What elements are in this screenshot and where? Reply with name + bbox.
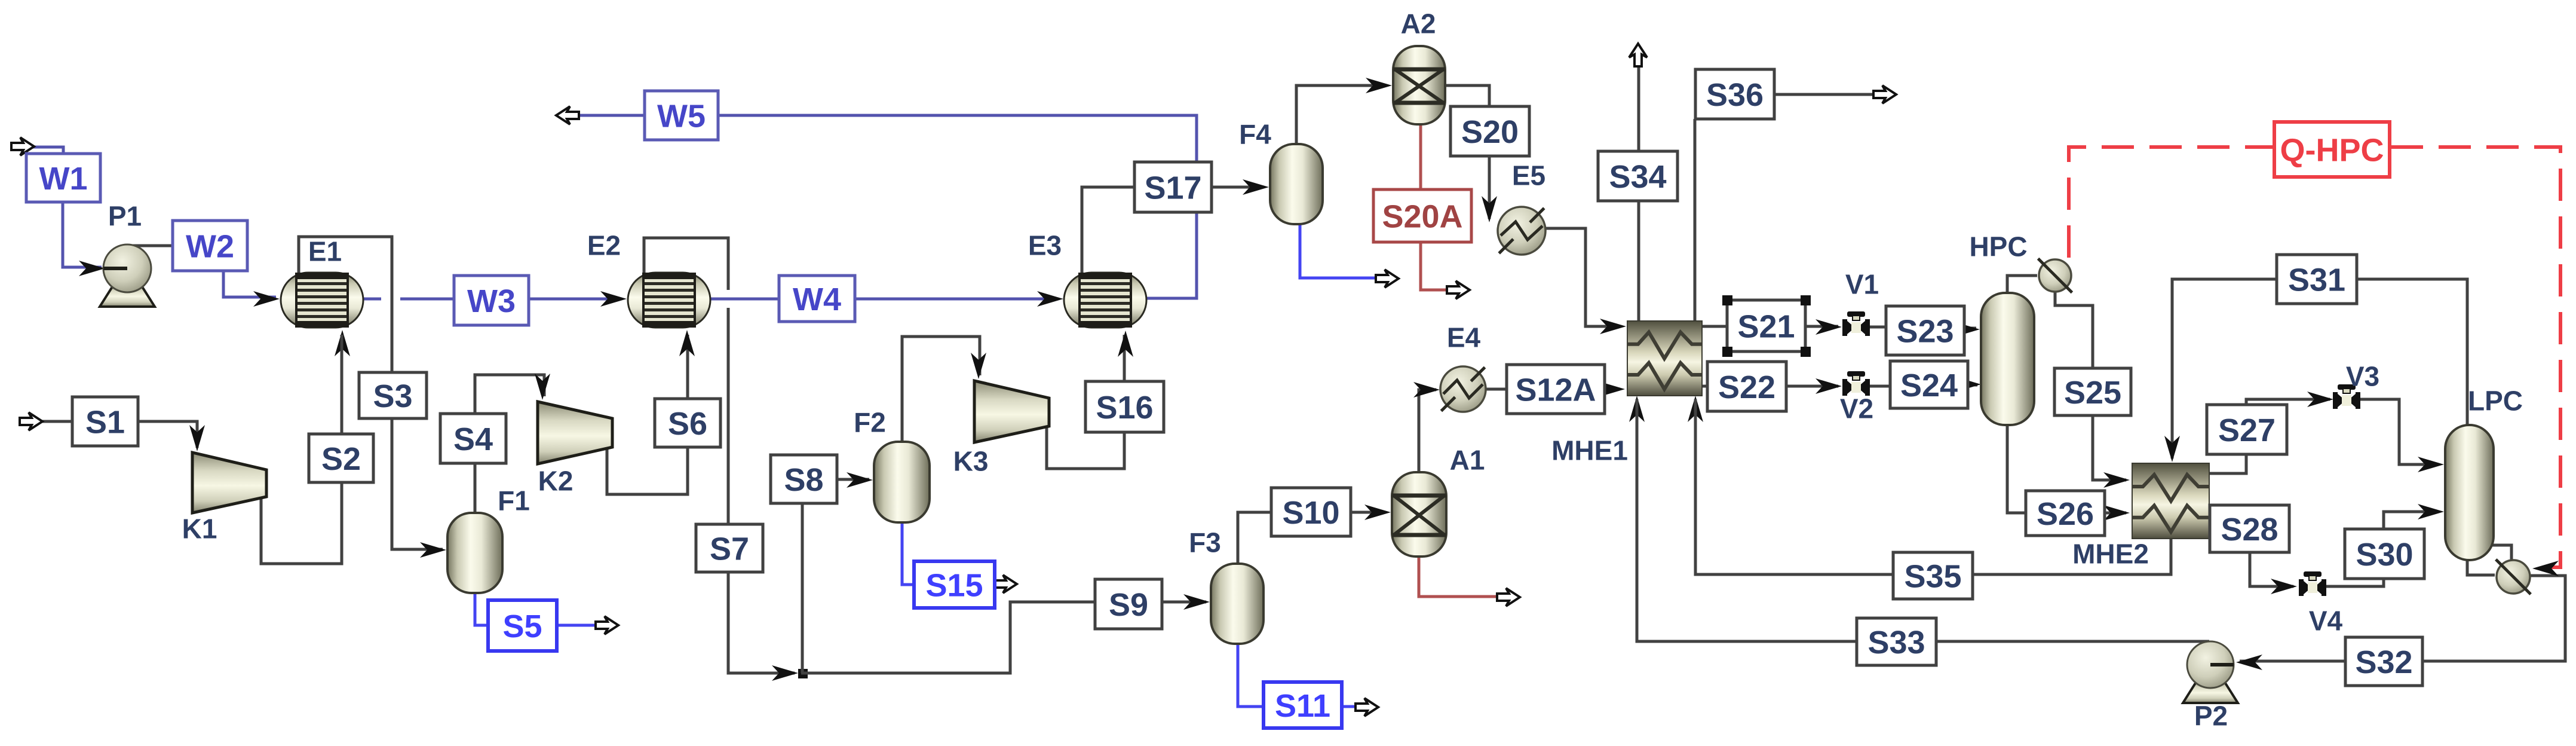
io arrow S20A outlet bbox=[1447, 281, 1470, 299]
arrowhead into LPC lower bbox=[2418, 504, 2444, 519]
svg-text:S16: S16 bbox=[1096, 390, 1153, 426]
flash drum F1 bbox=[447, 513, 502, 593]
arrowhead into MHE2 hot2 bbox=[2103, 505, 2130, 521]
svg-text:A1: A1 bbox=[1450, 445, 1485, 476]
wire V2 to S24 bbox=[1870, 385, 1891, 388]
svg-text:V3: V3 bbox=[2346, 361, 2379, 392]
wire F2 top to K3 bbox=[902, 337, 980, 442]
wire S25 to MHE2 inlet bbox=[2093, 415, 2126, 480]
stream label S34 bbox=[1598, 151, 1678, 201]
pump P2 bbox=[2183, 641, 2238, 703]
stream label S30 bbox=[2345, 529, 2424, 579]
arrowhead into E1 bottom bbox=[335, 330, 350, 356]
svg-text:E1: E1 bbox=[308, 236, 342, 267]
stream label S6 bbox=[655, 399, 720, 447]
svg-text:V4: V4 bbox=[2309, 606, 2343, 637]
svg-text:F4: F4 bbox=[1239, 119, 1271, 150]
wire S35 from MHE2 to MHE1 bbox=[1695, 399, 2171, 574]
stream label S33 bbox=[1857, 618, 1936, 665]
svg-text:S36: S36 bbox=[1706, 77, 1764, 113]
wire MHE2 via S27 to V3 bbox=[2209, 399, 2330, 473]
stream label S27 bbox=[2207, 405, 2287, 454]
arrowhead into V4 bbox=[2271, 579, 2297, 594]
svg-text:E4: E4 bbox=[1447, 322, 1481, 353]
wire V3 to LPC bbox=[2357, 399, 2439, 464]
svg-text:S27: S27 bbox=[2218, 412, 2276, 448]
wire S8 down to junction bbox=[801, 503, 804, 673]
svg-text:S24: S24 bbox=[1900, 368, 1958, 403]
flash drum F3 bbox=[1211, 564, 1264, 644]
stream label S21 bbox=[1727, 300, 1805, 351]
stream label S7 bbox=[696, 524, 763, 572]
arrowhead into V3 bbox=[2307, 392, 2333, 407]
svg-text:S34: S34 bbox=[1609, 159, 1666, 195]
arrowhead at junction bbox=[772, 665, 798, 681]
wire E5 to MHE1 bbox=[1544, 228, 1621, 326]
multistream exchanger MHE2 bbox=[2132, 463, 2209, 539]
wire A2 bottom via S20A bbox=[1421, 126, 1448, 290]
io arrow S36 outlet bbox=[1873, 85, 1896, 103]
svg-text:S4: S4 bbox=[453, 421, 493, 457]
wire V4 via S30 to LPC bbox=[2326, 512, 2439, 586]
stream label S4 bbox=[440, 414, 506, 463]
wire S36 to outlet bbox=[1773, 93, 1875, 96]
wire E2 to W4 bbox=[710, 298, 780, 301]
io arrow W1 feed bbox=[11, 137, 34, 155]
valve V4 bbox=[2299, 571, 2326, 596]
wire E3 to W5 bbox=[719, 115, 1197, 298]
svg-text:K2: K2 bbox=[538, 466, 574, 497]
svg-text:S12A: S12A bbox=[1515, 372, 1596, 408]
svg-text:S33: S33 bbox=[1867, 625, 1925, 661]
wire A1 top to E4 bbox=[1419, 390, 1436, 472]
heater E5 bbox=[1498, 207, 1545, 255]
column HPC body bbox=[1981, 293, 2034, 425]
flash drum F4 bbox=[1270, 144, 1323, 224]
wire S7 down to junction bbox=[728, 308, 795, 673]
wire K1 to S2 bbox=[261, 359, 342, 564]
arrowhead into LPC reboiler bbox=[2532, 561, 2559, 576]
svg-text:S30: S30 bbox=[2356, 537, 2413, 573]
valve V2 bbox=[1842, 371, 1870, 396]
svg-text:S31: S31 bbox=[2288, 262, 2345, 298]
svg-text:A2: A2 bbox=[1401, 8, 1436, 39]
wire S22 to V2 bbox=[1785, 385, 1838, 388]
arrowhead into E1 bbox=[253, 291, 280, 307]
stream label S20A bbox=[1373, 189, 1471, 242]
svg-text:S2: S2 bbox=[321, 441, 361, 477]
wire S23 to HPC bbox=[1963, 327, 1976, 330]
arrowhead into F2 bbox=[847, 472, 873, 488]
wire junction via S9 to F3 bbox=[801, 602, 1206, 673]
stream label S36 bbox=[1695, 69, 1774, 119]
io arrow S5 outlet bbox=[596, 616, 618, 634]
stream label S9 bbox=[1095, 579, 1162, 629]
wire S26 to MHE2 bbox=[2103, 512, 2126, 515]
svg-text:S17: S17 bbox=[1144, 170, 1201, 206]
wire F1 bottom to S5 bbox=[475, 593, 489, 625]
stream label S10 bbox=[1271, 488, 1351, 536]
wire Q-HPC dashed left bbox=[2069, 147, 2273, 258]
heat exchanger E1 bbox=[281, 273, 363, 328]
compressor K3 bbox=[974, 381, 1049, 442]
arrowhead into MHE1 cold1 bbox=[1629, 396, 1645, 422]
wire S11 stub bbox=[1341, 705, 1357, 708]
compressor K2 bbox=[538, 402, 612, 464]
stream label S26 bbox=[2026, 491, 2105, 536]
wire S2 up bbox=[341, 359, 344, 482]
wire W5 to outlet bbox=[577, 114, 646, 117]
wire F3 top via S10 to A1 bbox=[1238, 512, 1386, 564]
svg-text:S8: S8 bbox=[784, 462, 823, 498]
wire HPC bottom to S26 bbox=[2007, 425, 2027, 513]
stream label S17 bbox=[1134, 162, 1212, 212]
stream label W5 bbox=[645, 91, 718, 140]
wire reboiler via S32 bbox=[2424, 576, 2565, 661]
io arrow S34 outlet bbox=[1629, 44, 1647, 66]
svg-text:S25: S25 bbox=[2064, 375, 2121, 411]
svg-text:HPC: HPC bbox=[1969, 231, 2027, 262]
arrowhead into P1 bbox=[79, 261, 105, 276]
wire LPC top via S31 to MHE2 bbox=[2172, 279, 2467, 458]
svg-text:E3: E3 bbox=[1028, 230, 1062, 261]
arrowhead into F3 bbox=[1183, 594, 1210, 610]
flash drum F2 bbox=[874, 442, 930, 522]
svg-text:K1: K1 bbox=[182, 513, 217, 545]
svg-text:P1: P1 bbox=[108, 201, 142, 232]
arrowhead into K2 bbox=[535, 374, 550, 400]
svg-text:W3: W3 bbox=[467, 283, 516, 319]
wire S1 to K1 bbox=[137, 421, 197, 448]
arrowhead into A2 bbox=[1366, 78, 1392, 93]
svg-text:S3: S3 bbox=[373, 378, 412, 414]
svg-text:S32: S32 bbox=[2355, 644, 2412, 680]
arrowhead into K3 bbox=[971, 353, 986, 379]
junction node bbox=[798, 669, 808, 678]
wire HPC top to condenser bbox=[2007, 276, 2037, 293]
svg-text:S1: S1 bbox=[85, 404, 125, 440]
stream label S25 bbox=[2054, 368, 2131, 415]
stream label S28 bbox=[2210, 505, 2289, 552]
arrowhead into F1 bbox=[420, 542, 446, 558]
arrowhead into MHE1 cold2 bbox=[1688, 396, 1703, 422]
io arrow A1 bottom outlet bbox=[1497, 588, 1520, 606]
svg-text:MHE2: MHE2 bbox=[2072, 539, 2149, 570]
svg-text:V1: V1 bbox=[1845, 269, 1879, 300]
io arrow S1 feed bbox=[20, 412, 42, 430]
wire F2 bottom to S15 bbox=[902, 522, 915, 585]
arrowhead into MHE1 hot2 bbox=[1599, 381, 1625, 397]
arrowhead into MHE2 top bbox=[2164, 436, 2180, 462]
wire E2 top to S7 upper bbox=[644, 238, 728, 290]
arrowhead into HPC upper bbox=[1954, 322, 1980, 337]
stream label S22 bbox=[1707, 362, 1786, 411]
io arrow W5 outlet bbox=[556, 106, 579, 124]
arrowhead into V1 bbox=[1816, 319, 1842, 335]
stream label W1 bbox=[26, 154, 100, 202]
svg-text:MHE1: MHE1 bbox=[1551, 435, 1628, 466]
stream label S16 bbox=[1085, 381, 1164, 432]
arrowhead into A1 bbox=[1364, 505, 1391, 520]
wire F1 top via S4 to K2 bbox=[475, 375, 544, 513]
svg-text:Q-HPC: Q-HPC bbox=[2280, 132, 2384, 168]
stream label S3 bbox=[359, 372, 427, 418]
io arrow F4 liquid outlet bbox=[1376, 270, 1399, 288]
multistream exchanger MHE1 bbox=[1627, 321, 1702, 396]
arrowhead into MHE1 hot1 bbox=[1600, 319, 1626, 334]
column LPC body bbox=[2445, 425, 2494, 560]
svg-text:W1: W1 bbox=[39, 161, 88, 197]
wire K3 via S16 to E3 bbox=[1047, 335, 1124, 469]
arrowhead into E5 bbox=[1482, 196, 1497, 222]
svg-text:LPC: LPC bbox=[2468, 386, 2523, 417]
stream label S23 bbox=[1886, 306, 1964, 355]
wire S24 to HPC bbox=[1967, 384, 1977, 387]
svg-text:W2: W2 bbox=[186, 228, 234, 264]
svg-text:F2: F2 bbox=[854, 407, 886, 438]
svg-text:W5: W5 bbox=[657, 98, 706, 134]
wire A1 bottom red outlet bbox=[1419, 557, 1498, 597]
wire F4 top to A2 bbox=[1296, 85, 1387, 144]
heat exchanger E3 bbox=[1064, 273, 1146, 328]
arrowhead into E3 bottom bbox=[1118, 331, 1133, 357]
wire V1 to S23 bbox=[1870, 326, 1887, 329]
arrowhead into K1 bbox=[189, 425, 205, 451]
svg-text:S15: S15 bbox=[925, 567, 983, 603]
svg-text:S26: S26 bbox=[2037, 496, 2094, 532]
wire S33 from P2 to MHE1 bbox=[1637, 399, 2209, 641]
arrowhead into P2 bbox=[2236, 655, 2262, 670]
wire MHE1 top to S34 outlet bbox=[1637, 66, 1640, 321]
arrowhead into E4 bbox=[1413, 382, 1440, 398]
arrowhead into LPC upper bbox=[2418, 457, 2444, 472]
svg-text:S35: S35 bbox=[1904, 558, 1961, 594]
stream label S5 bbox=[488, 600, 557, 651]
wire S2 to E1 bbox=[341, 335, 344, 434]
arrowhead into E2 bottom bbox=[679, 330, 695, 356]
io arrow S11 outlet bbox=[1356, 698, 1378, 716]
reboiler of LPC bbox=[2496, 559, 2531, 594]
svg-text:S28: S28 bbox=[2221, 512, 2278, 548]
wire E3 top via S17 to F4 bbox=[1082, 187, 1264, 273]
stream label S8 bbox=[771, 455, 837, 503]
pump P1 bbox=[100, 244, 155, 307]
stream label S1 bbox=[72, 397, 138, 446]
svg-text:S20A: S20A bbox=[1382, 198, 1462, 234]
wire W1 to P1 bbox=[63, 201, 102, 267]
wire S32 to P2 bbox=[2240, 660, 2347, 663]
wire MHE1 top to S36 bbox=[1694, 119, 1697, 321]
arrowhead into V2 bbox=[1816, 378, 1842, 394]
stream label S35 bbox=[1893, 552, 1973, 599]
stream label S12A bbox=[1507, 365, 1605, 414]
wire E4 to S12A bbox=[1485, 388, 1508, 391]
stream label S20 bbox=[1450, 106, 1529, 156]
wire F3 bottom to S11 bbox=[1238, 644, 1265, 707]
wire LPC bottom to reboiler bbox=[2467, 560, 2495, 575]
heat exchanger E2 bbox=[628, 273, 710, 328]
wire F4 bottom blue outlet bbox=[1300, 224, 1377, 278]
compressor K1 bbox=[192, 453, 266, 513]
svg-text:S20: S20 bbox=[1461, 114, 1519, 150]
stream label W2 bbox=[173, 221, 247, 271]
svg-text:S11: S11 bbox=[1275, 688, 1330, 724]
wire S8 to F2 bbox=[837, 478, 869, 481]
wire W2 to E1 bbox=[223, 270, 276, 297]
stream label S11 bbox=[1264, 682, 1342, 728]
wire W3 to E2 bbox=[528, 298, 622, 301]
stream label W3 bbox=[454, 276, 529, 325]
svg-text:S5: S5 bbox=[502, 609, 542, 644]
wire MHE1 to S21 bbox=[1702, 325, 1728, 328]
wire Q-HPC dashed right bbox=[2391, 147, 2560, 567]
stream label S32 bbox=[2345, 637, 2422, 686]
valve V1 bbox=[1842, 311, 1870, 336]
svg-text:S21: S21 bbox=[1737, 308, 1795, 344]
arrowhead into E2 bbox=[600, 291, 627, 307]
wire to W3 bbox=[400, 298, 455, 301]
wire E1 top via S3 to F1 bbox=[299, 237, 443, 549]
condenser of HPC bbox=[2038, 259, 2072, 293]
wire S12A to MHE1 bbox=[1603, 388, 1620, 391]
wire LPC side to reboiler top bbox=[2489, 545, 2511, 560]
wire P1 outlet to W2 bbox=[125, 244, 174, 247]
svg-text:E5: E5 bbox=[1512, 160, 1545, 191]
wire feed to S1 bbox=[39, 420, 73, 423]
arrowhead into HPC lower bbox=[1955, 377, 1981, 392]
wire MHE1 to S22 bbox=[1702, 385, 1709, 388]
stream label S24 bbox=[1890, 361, 1968, 408]
wire S5 to outlet bbox=[556, 624, 597, 627]
svg-text:P2: P2 bbox=[2194, 701, 2228, 732]
selection handles of S21 bbox=[1722, 295, 1732, 305]
heater E4 bbox=[1440, 366, 1486, 412]
arrowhead into E3 bbox=[1037, 291, 1063, 307]
svg-text:S7: S7 bbox=[710, 531, 749, 567]
svg-text:E2: E2 bbox=[587, 230, 621, 261]
stream label S2 bbox=[309, 434, 373, 482]
svg-text:S9: S9 bbox=[1109, 587, 1148, 623]
svg-text:F1: F1 bbox=[498, 485, 530, 516]
stream label S31 bbox=[2277, 255, 2357, 304]
stream label S15 bbox=[914, 561, 995, 608]
svg-text:F3: F3 bbox=[1189, 527, 1221, 558]
valve V3 bbox=[2333, 384, 2360, 409]
wire A2 via S20 to E5 bbox=[1445, 85, 1489, 219]
svg-text:W4: W4 bbox=[793, 282, 841, 317]
arrowhead into MHE2 hot1 bbox=[2103, 472, 2130, 488]
absorber A1 bbox=[1392, 472, 1446, 557]
wire W1 feed bbox=[31, 147, 63, 157]
svg-text:S6: S6 bbox=[668, 406, 707, 442]
svg-text:V2: V2 bbox=[1840, 393, 1873, 424]
wire condenser via S25 to MHE2 bbox=[2055, 292, 2093, 476]
stream label W4 bbox=[779, 276, 855, 322]
svg-text:S22: S22 bbox=[1718, 369, 1775, 405]
absorber A2 bbox=[1393, 46, 1445, 124]
svg-text:K3: K3 bbox=[953, 446, 989, 477]
wire K2 to S6 to E2 bbox=[607, 335, 688, 494]
arrowhead into F4 bbox=[1243, 179, 1269, 195]
wire S21 to V1 bbox=[1804, 325, 1838, 328]
wire E1 outlet dash bbox=[363, 298, 381, 301]
stream label Q-HPC bbox=[2274, 122, 2390, 177]
svg-text:S10: S10 bbox=[1282, 495, 1339, 531]
wire S28 to V4 bbox=[2250, 552, 2293, 586]
svg-text:S23: S23 bbox=[1896, 313, 1954, 349]
wire W4 to E3 bbox=[854, 298, 1059, 301]
io arrow S15 outlet bbox=[994, 575, 1017, 593]
